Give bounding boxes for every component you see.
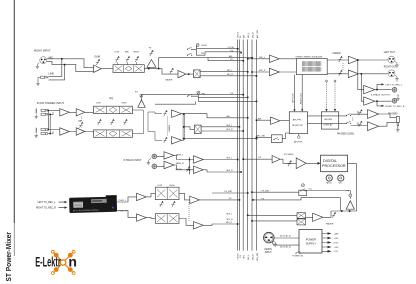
svg-text:MIX_L: MIX_L [227, 158, 234, 160]
svg-text:MIX_L: MIX_L [248, 33, 250, 38]
svg-text:LEFT TO_REC_L: LEFT TO_REC_L [386, 84, 404, 86]
svg-text:PLAY_L: PLAY_L [119, 199, 128, 202]
svg-text:PROCESSOR: PROCESSOR [322, 164, 346, 168]
svg-text:ST Power-Mixer: ST Power-Mixer [4, 232, 13, 282]
svg-text:STEREO GRAPHIC EQUALIZER: STEREO GRAPHIC EQUALIZER [296, 56, 323, 59]
svg-text:-15V: -15V [334, 251, 339, 253]
svg-text:RIGHT TO_REC_R: RIGHT TO_REC_R [36, 208, 56, 210]
svg-text:MIX_R: MIX_R [227, 170, 234, 172]
svg-text:AFL/PFL: AFL/PFL [293, 118, 302, 121]
svg-text:+48V: +48V [334, 233, 340, 235]
svg-text:MIX_R: MIX_R [226, 222, 233, 224]
svg-text:LEFT OUT: LEFT OUT [293, 93, 295, 103]
svg-text:EQ: EQ [110, 97, 114, 100]
svg-text:E-Lektr: E-Lektr [35, 254, 61, 270]
svg-text:MONO INPUT: MONO INPUT [34, 49, 51, 53]
svg-text:MIX_L: MIX_L [227, 214, 234, 216]
svg-text:LOW: LOW [157, 185, 162, 187]
svg-text:SUPPLY: SUPPLY [306, 242, 317, 246]
svg-text:MONITOR: MONITOR [292, 125, 303, 127]
svg-text:FX_MST: FX_MST [225, 191, 234, 193]
svg-text:PATCH: PATCH [326, 182, 332, 185]
svg-text:HIGH: HIGH [134, 51, 140, 53]
svg-text:LOW: LOW [96, 102, 101, 104]
svg-text:MID: MID [125, 51, 129, 53]
svg-text:MAINS: MAINS [265, 248, 273, 251]
svg-text:MIX_R: MIX_R [227, 219, 234, 221]
svg-text:TAPE_R: TAPE_R [176, 162, 185, 165]
svg-text:43,5V AC 2x: 43,5V AC 2x [280, 245, 291, 248]
svg-text:LEFT OUT: LEFT OUT [384, 52, 396, 54]
svg-text:HIGH: HIGH [122, 102, 128, 104]
svg-text:2T/CD STEREO INPUT: 2T/CD STEREO INPUT [37, 101, 65, 105]
svg-text:AFL: AFL [243, 35, 246, 38]
svg-text:AFL: AFL [243, 255, 246, 258]
svg-text:+15V: +15V [334, 247, 340, 249]
svg-text:TAPE_L: TAPE_L [176, 153, 185, 156]
svg-text:METER: METER [324, 119, 332, 121]
svg-text:AFL_SEL: AFL_SEL [256, 252, 259, 260]
svg-text:MIX_R: MIX_R [227, 74, 234, 76]
svg-text:FADER: FADER [168, 124, 171, 131]
svg-text:GAIN: GAIN [94, 56, 100, 59]
svg-text:AFL_SEL: AFL_SEL [256, 30, 259, 38]
svg-text:POWER: POWER [306, 237, 316, 241]
svg-text:MIX_L: MIX_L [248, 255, 250, 260]
svg-text:CH_MT: CH_MT [228, 47, 236, 49]
svg-text:8-TRACK OUTPUT: 8-TRACK OUTPUT [371, 94, 391, 97]
svg-text:INPUT: INPUT [265, 252, 272, 254]
svg-text:LINE: LINE [49, 72, 55, 75]
svg-text:CH MT: CH MT [201, 45, 208, 47]
svg-text:FX_MST: FX_MST [262, 191, 271, 193]
svg-text:FX SEND: FX SEND [284, 154, 294, 156]
svg-text:RIGHT OUT: RIGHT OUT [384, 66, 397, 68]
svg-text:+15V: +15V [334, 238, 340, 240]
svg-text:MIX_L: MIX_L [227, 70, 234, 72]
svg-text:MIX_R: MIX_R [227, 129, 234, 131]
svg-text:LEFT TO_REC_L: LEFT TO_REC_L [38, 202, 57, 204]
svg-text:43,5V AC 2x: 43,5V AC 2x [280, 234, 291, 237]
svg-text:DISPLAY: DISPLAY [324, 123, 334, 126]
svg-text:MIX_R: MIX_R [252, 32, 254, 38]
svg-text:n: n [68, 254, 77, 270]
svg-text:POWER ON: POWER ON [293, 256, 304, 258]
svg-text:AFL/PFL: AFL/PFL [294, 141, 303, 144]
svg-text:MIX_L: MIX_L [227, 125, 234, 127]
svg-text:-15V: -15V [334, 242, 339, 244]
svg-text:PHONES LEVEL: PHONES LEVEL [337, 133, 355, 135]
svg-text:DIGITAL: DIGITAL [323, 159, 337, 163]
svg-text:LOW: LOW [114, 51, 119, 53]
svg-text:MIX_R: MIX_R [252, 254, 254, 260]
svg-text:FADER: FADER [326, 222, 334, 225]
svg-text:LVL: LVL [309, 189, 312, 191]
svg-text:FADER: FADER [333, 52, 341, 55]
svg-text:8-TRACK INPUT: 8-TRACK INPUT [124, 159, 143, 162]
svg-text:HIGH: HIGH [169, 185, 175, 187]
svg-text:RIGHT TO_REC_R: RIGHT TO_REC_R [386, 106, 405, 108]
svg-text:RIGHT OUT: RIGHT OUT [300, 92, 302, 104]
svg-text:FADER: FADER [166, 79, 173, 82]
